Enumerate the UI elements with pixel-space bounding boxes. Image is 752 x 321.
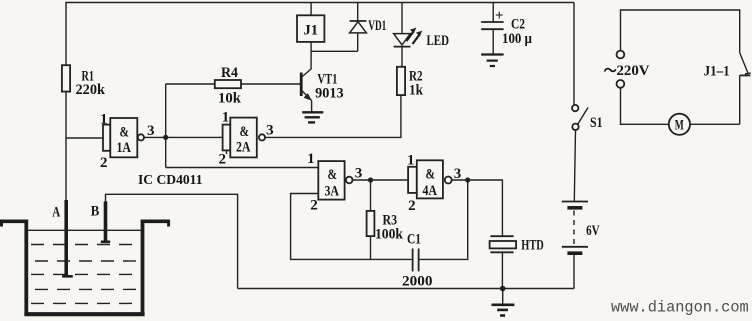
svg-text:IC CD4011: IC CD4011 <box>138 172 203 187</box>
wire 1A input <box>66 137 103 139</box>
svg-text:J1: J1 <box>304 23 319 39</box>
resistor R1 <box>62 65 70 91</box>
svg-text:www.diangon.com: www.diangon.com <box>611 299 749 317</box>
wire 3A pin2 feedback to C1 left <box>291 194 412 260</box>
wire rail up and left to electrode B <box>106 194 238 288</box>
svg-text:1: 1 <box>100 111 108 127</box>
LED light arrows <box>407 32 414 42</box>
svg-text:&: & <box>240 124 250 140</box>
svg-text:M: M <box>675 118 684 134</box>
svg-text:HTD: HTD <box>521 238 544 254</box>
gate U1A (CD4011 1A) <box>103 125 110 151</box>
svg-text:&: & <box>328 167 338 183</box>
water tank <box>0 220 28 224</box>
svg-text:2000: 2000 <box>402 274 433 290</box>
svg-text:100 µ: 100 µ <box>502 31 532 47</box>
diode VD1 <box>357 3 359 22</box>
water surface line <box>28 229 140 231</box>
svg-text:3A: 3A <box>325 183 340 199</box>
svg-text:1: 1 <box>222 110 230 126</box>
capacitor C1 <box>412 249 414 272</box>
resistor R2 <box>397 67 405 95</box>
svg-text:3: 3 <box>355 166 363 182</box>
wire left vertical from rail to electrode A <box>65 3 67 203</box>
svg-text:A: A <box>52 205 60 221</box>
wire 2A output to R2 bottom <box>265 95 401 137</box>
svg-text:C1: C1 <box>407 232 421 248</box>
gate U2A (CD4011 2A) <box>223 125 231 151</box>
wire 3A output to 4A input <box>353 179 409 181</box>
svg-text:VD1: VD1 <box>368 18 386 34</box>
svg-text:1: 1 <box>407 153 415 169</box>
svg-text:220k: 220k <box>76 82 106 98</box>
svg-text:J1–1: J1–1 <box>704 64 730 80</box>
LED indicator <box>401 3 403 34</box>
wire R4 row to transistor base <box>166 83 300 85</box>
wire bottom ground rail <box>238 288 574 290</box>
svg-text:2A: 2A <box>236 140 251 156</box>
transistor VT1 9013 <box>300 73 303 97</box>
svg-text:100k: 100k <box>375 227 404 243</box>
svg-text:4A: 4A <box>423 183 438 199</box>
svg-text:2: 2 <box>100 155 108 171</box>
piezo sounder HTD <box>490 235 513 237</box>
mains circuit box 220V <box>621 10 740 53</box>
svg-text:220V: 220V <box>617 63 650 79</box>
svg-text:6V: 6V <box>586 223 600 239</box>
svg-text:3: 3 <box>266 123 274 139</box>
water dashes <box>31 244 140 246</box>
wire junction down to pin-1 row of 3A <box>165 137 167 167</box>
svg-text:1: 1 <box>307 151 315 167</box>
svg-text:LED: LED <box>427 33 450 49</box>
wire 4A output to HTD <box>452 180 503 236</box>
svg-text:2: 2 <box>310 198 318 214</box>
wire 1A output to 2A input <box>144 136 223 138</box>
svg-text:2: 2 <box>408 198 416 214</box>
capacitor C2 <box>492 3 494 22</box>
ground under C2 <box>481 53 503 55</box>
node junction at R3 top <box>368 177 373 182</box>
svg-text:&: & <box>426 166 436 182</box>
motor M <box>669 114 690 135</box>
svg-text:1A: 1A <box>117 140 132 156</box>
svg-text:3: 3 <box>147 123 155 139</box>
electrode B <box>104 201 108 241</box>
ground below rail <box>502 289 504 304</box>
wire top supply rail <box>65 2 574 4</box>
resistor R4 <box>215 80 241 88</box>
electrode A <box>64 200 68 276</box>
svg-text:S1: S1 <box>590 115 603 131</box>
svg-text:&: & <box>120 124 130 140</box>
wire J1 bottom to VD1 anode <box>311 50 358 52</box>
svg-text:10k: 10k <box>218 91 242 107</box>
gate U3A (CD4011 3A) <box>318 161 344 200</box>
switch S1 <box>573 3 575 105</box>
svg-text:R4: R4 <box>221 65 238 81</box>
resistor R3 <box>370 180 372 211</box>
node junction at 4A output <box>465 177 470 182</box>
svg-text:1k: 1k <box>409 83 424 99</box>
node junction HTD/ground on rail <box>500 286 506 292</box>
relay contact J1-1 <box>740 53 749 74</box>
battery 6V <box>562 201 588 203</box>
wire junction up to R4 row <box>165 84 167 137</box>
node junction at 1A output <box>163 135 168 140</box>
svg-text:B: B <box>91 204 100 220</box>
svg-text:9013: 9013 <box>315 86 344 102</box>
svg-text:2: 2 <box>219 151 227 167</box>
gate U4A (CD4011 4A) <box>408 167 417 193</box>
wire C1 right to 4A output <box>419 180 468 259</box>
ground under VT1 emitter <box>302 111 323 113</box>
relay coil J1 <box>310 3 312 16</box>
